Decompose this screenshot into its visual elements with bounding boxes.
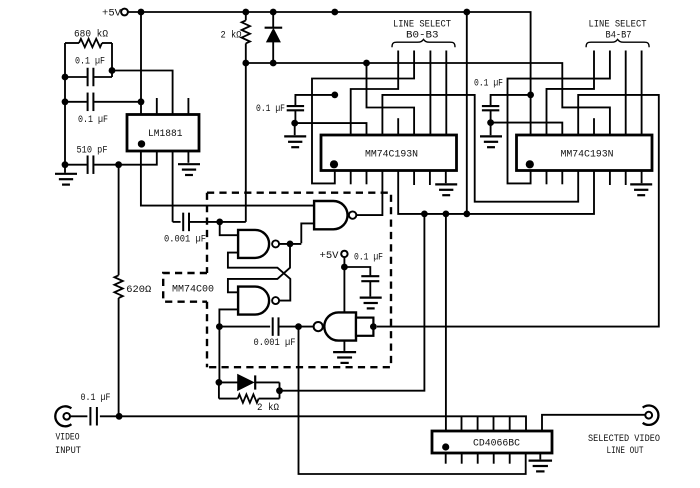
svg-text:MM74C193N: MM74C193N [561,149,614,161]
svg-text:VIDEO: VIDEO [56,431,80,443]
svg-text:MM74C193N: MM74C193N [365,149,418,161]
svg-text:0.001 µF: 0.001 µF [254,337,296,349]
svg-text:680 kΩ: 680 kΩ [74,28,108,40]
svg-text:0.1 µF: 0.1 µF [78,114,108,126]
svg-text:+5V: +5V [320,250,340,262]
svg-text:MM74C00: MM74C00 [172,283,214,295]
svg-text:B0-B3: B0-B3 [406,29,439,41]
svg-text:0.001 µF: 0.001 µF [164,234,206,246]
svg-text:0.1 µF: 0.1 µF [75,56,105,68]
svg-text:0.1 µF: 0.1 µF [256,103,285,115]
svg-text:SELECTED VIDEO: SELECTED VIDEO [588,433,660,445]
svg-text:+5V: +5V [102,8,122,20]
svg-text:LM1881: LM1881 [148,128,183,140]
svg-text:0.1 µF: 0.1 µF [81,392,111,404]
svg-text:2 kΩ: 2 kΩ [257,402,279,414]
svg-text:0.1 µF: 0.1 µF [354,252,383,264]
svg-text:510 pF: 510 pF [77,145,108,157]
svg-text:620Ω: 620Ω [126,284,151,296]
svg-text:INPUT: INPUT [55,445,81,457]
svg-text:CD4066BC: CD4066BC [473,438,520,450]
svg-text:LINE OUT: LINE OUT [607,445,644,457]
svg-text:2 kΩ: 2 kΩ [221,30,242,42]
svg-text:0.1 µF: 0.1 µF [474,77,503,89]
